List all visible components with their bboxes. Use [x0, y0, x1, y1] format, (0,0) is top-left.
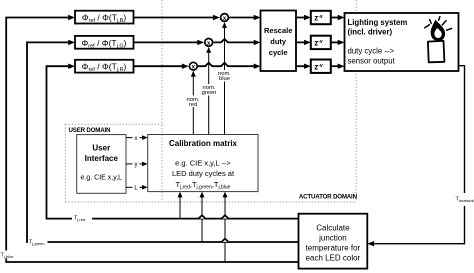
svg-text:Interface: Interface: [85, 154, 119, 163]
svg-text:Tj,blue: Tj,blue: [1, 253, 15, 260]
nom.blue vertical wire from calibration matrix to multiplier 1: [224, 26, 226, 135]
arrowhead into rescale row2: [254, 40, 261, 45]
arrowhead up into multiplier 3: [191, 71, 196, 77]
lamp icon: flame inner: [434, 28, 441, 38]
user domain dotted boundary: [65, 0, 356, 202]
svg-text:Rescale: Rescale: [264, 26, 292, 35]
svg-text:red: red: [189, 102, 197, 108]
arrowhead into calculate block: [367, 241, 374, 246]
svg-text:USER DOMAIN: USER DOMAIN: [69, 127, 112, 134]
wire block B3 to multiplier 3: [134, 65, 183, 67]
block z^-v 2: [311, 36, 331, 49]
arrowhead into block B2: [68, 40, 75, 45]
svg-text:x: x: [135, 136, 138, 142]
nom.green vertical wire from calibration matrix to multiplier 2: [208, 51, 210, 135]
svg-text:duty: duty: [270, 37, 287, 46]
lamp icon: candle body: [428, 41, 445, 63]
wire row2 from left vertical to block G: [27, 42, 299, 242]
svg-text:cycle: cycle: [269, 48, 288, 57]
block Rescale duty cycle: [261, 11, 297, 72]
svg-text:Calibration matrix: Calibration matrix: [169, 139, 238, 148]
wire row1 from left vertical to block B: [6, 18, 298, 263]
wire row3 from left vertical to block R: [47, 66, 299, 218]
arrowhead into block B3: [68, 64, 75, 69]
arrowhead into rescale row1: [254, 15, 261, 20]
arrowhead into multiplier 2: [197, 40, 204, 45]
multiplier circle 2: [205, 39, 213, 47]
multiplier circle 1: [221, 14, 229, 22]
svg-text:(incl. driver): (incl. driver): [348, 28, 393, 37]
wires z blocks to lighting system: [331, 17, 338, 19]
lamp icon: rays: [425, 17, 452, 31]
hop of green line over blue vertical: [222, 239, 229, 242]
svg-text:ACTUATOR DOMAIN: ACTUATOR DOMAIN: [299, 193, 358, 200]
wire multiplier3 to rescale with hops over nom.green and nom.blue lines: [198, 63, 255, 66]
wire multiplier1 to rescale with no crossing: [229, 17, 254, 19]
svg-text:Theatsink: Theatsink: [456, 197, 474, 204]
block Lighting system: [345, 13, 459, 71]
block Phi ref / Phi(Tj,B): [75, 11, 134, 24]
hops of red line over green/blue verticals: [199, 215, 206, 218]
arrowhead into block B1: [68, 15, 75, 20]
Tj,blue vertical wire into calibration matrix (crosses red and green lines): [224, 195, 226, 262]
x arrow user interface to calibration: [126, 135, 148, 142]
svg-text:LED duty cycles at: LED duty cycles at: [172, 169, 235, 178]
svg-text:Tj,red: Tj,red: [74, 216, 85, 223]
block Phi ref / Phi(Tj,G): [75, 36, 134, 49]
svg-text:Calculate: Calculate: [316, 224, 350, 233]
svg-text:temperature for: temperature for: [306, 244, 361, 253]
block Calibration matrix: [148, 135, 258, 192]
block User Interface: [77, 135, 126, 194]
L arrow user interface to calibration: [126, 185, 148, 192]
block Phi ref / Phi(Tj,R): [75, 60, 134, 73]
svg-text:e.g. CIE x,y,L: e.g. CIE x,y,L: [81, 174, 123, 181]
multiplier circle 3: [189, 62, 197, 70]
svg-text:sensor output: sensor output: [348, 57, 396, 66]
svg-text:e.g. CIE x,y,L -->: e.g. CIE x,y,L -->: [175, 159, 231, 168]
svg-text:blue: blue: [219, 76, 230, 82]
wire multiplier2 to rescale with hop over nom.blue line: [213, 39, 254, 42]
wire block B2 to multiplier 2: [134, 41, 198, 43]
svg-text:User: User: [92, 143, 110, 152]
svg-text:duty cycle -->: duty cycle -->: [348, 47, 395, 56]
arrowhead up into multiplier 2: [206, 47, 211, 53]
svg-text:each LED color: each LED color: [306, 254, 361, 263]
block z^-v 1: [311, 11, 331, 24]
svg-text:Tj,green: Tj,green: [29, 239, 45, 246]
feedback wire from lighting system to calculate block: [374, 66, 465, 244]
wires rescale to z blocks: [296, 17, 304, 19]
arrowhead into rescale row3: [254, 64, 261, 69]
arrowhead into multiplier 3: [182, 64, 189, 69]
block Calculate junction temperature: [299, 214, 368, 269]
svg-text:green: green: [202, 90, 217, 96]
wire block B1 to multiplier 1: [134, 17, 214, 19]
svg-text:y: y: [135, 162, 138, 168]
arrowhead up into multiplier 1: [222, 22, 227, 28]
lamp icon: flame: [431, 20, 445, 41]
y arrow user interface to calibration: [126, 162, 148, 169]
Tj,green vertical wire into calibration matrix (crosses red line): [201, 195, 203, 242]
nom.red vertical wire from calibration matrix to multiplier 3: [192, 75, 194, 135]
Tj,red vertical wire into calibration matrix: [179, 195, 181, 218]
arrowhead into multiplier 1: [213, 15, 220, 20]
svg-text:junction: junction: [318, 234, 347, 243]
svg-text:Lighting system: Lighting system: [348, 18, 408, 27]
block z^-v 3: [311, 60, 331, 73]
